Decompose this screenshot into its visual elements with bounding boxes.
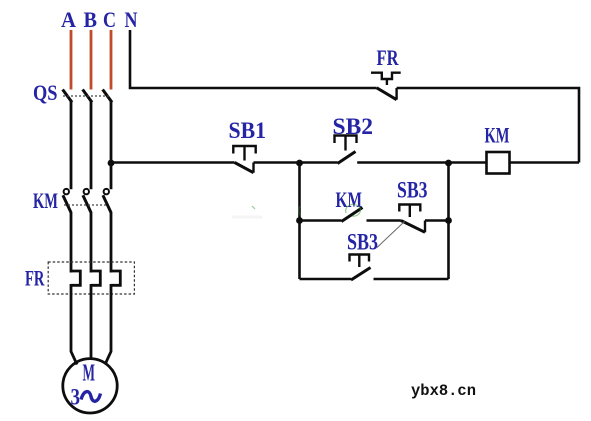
wire phase B supply (red): [90, 30, 93, 90]
relay contact FR (NC thermal contact): [371, 73, 401, 100]
wire phase A KM to FR heater: [70, 212, 73, 273]
wire neutral N down and top rail to FR contact: [130, 30, 377, 88]
wire phase B KM to FR heater: [90, 212, 93, 273]
node A label: [61, 7, 76, 32]
motor M 3-phase circle: [63, 359, 117, 413]
thermal relay FR dashed enclosure: [48, 262, 134, 294]
pushbutton SB2 label: [333, 114, 374, 139]
wire right node to KM coil: [449, 161, 487, 164]
wire branch3 left to SB3 NO: [300, 278, 352, 281]
node C label: [103, 7, 116, 32]
svg-text:FR: FR: [25, 266, 45, 291]
wire SB3 NC to branch2 right: [425, 219, 449, 222]
switch QS linkage (dotted): [63, 95, 110, 97]
wire left node to SB2: [300, 161, 338, 164]
pushbutton SB3 NO contact (jog): [350, 255, 371, 281]
motor label tilde: [81, 392, 101, 402]
contactor KM main contact pole A: [63, 189, 71, 213]
thermal relay FR heater element phase A: [71, 271, 80, 285]
wire KM coil to right rail: [510, 161, 580, 164]
wire SB3 NO to branch3 right: [374, 278, 449, 281]
watermark green scribble: [252, 204, 360, 216]
wire phase C QS to KM: [110, 102, 113, 190]
contactor KM main linkage (dotted): [64, 204, 107, 206]
wire SB2 to right node: [357, 161, 448, 164]
wire phase B QS to KM: [90, 102, 93, 190]
pushbutton SB3 label (upper): [397, 178, 428, 203]
svg-text:SB3: SB3: [397, 178, 428, 203]
wire control rail from tap to SB1: [111, 161, 235, 164]
wire phase B FR to motor: [90, 284, 93, 359]
motor label 3: [71, 385, 81, 410]
svg-text:KM: KM: [33, 188, 58, 213]
svg-text:C: C: [103, 7, 116, 32]
svg-text:QS: QS: [33, 80, 58, 105]
svg-text:A: A: [61, 7, 76, 32]
wire phase A supply (red): [70, 30, 73, 90]
annotation leader line linking SB3 contacts: [377, 222, 405, 248]
node left branch junction: [296, 160, 303, 167]
switch QS pole B blade: [83, 90, 92, 103]
wire phase C KM to FR heater: [110, 212, 113, 273]
wire right branch vertical: [447, 163, 450, 280]
svg-text:3: 3: [71, 385, 81, 410]
pushbutton SB1 label: [229, 118, 267, 143]
wire phase A QS to KM: [70, 102, 73, 190]
svg-text:ybx8.cn: ybx8.cn: [411, 382, 476, 400]
watermark faint gray remnant: [232, 216, 262, 219]
contactor KM auxiliary contact (NO, self holding): [341, 208, 362, 222]
svg-text:N: N: [125, 7, 138, 32]
node tap of control circuit on phase C: [108, 160, 115, 167]
switch QS label: [33, 80, 58, 105]
wire top rail right of FR to right rail corner: [397, 88, 579, 163]
wire phase A FR to motor: [71, 284, 77, 365]
wire branch2 left to KM aux: [300, 219, 342, 222]
switch QS pole C blade: [103, 90, 112, 103]
svg-text:SB1: SB1: [229, 118, 267, 143]
node right branch junction: [445, 160, 452, 167]
relay contact FR label (top): [377, 45, 400, 70]
svg-text:KM: KM: [336, 187, 363, 212]
node branch2 left junction: [296, 217, 303, 224]
coil KM label: [485, 123, 510, 148]
pushbutton SB3 label (lower): [347, 230, 378, 255]
wire phase C supply (red): [110, 30, 113, 90]
thermal relay FR heater element phase B: [91, 271, 100, 285]
pushbutton SB3 NC contact: [399, 205, 425, 233]
watermark text ybx8.cn: [411, 382, 476, 400]
contactor KM main contact pole C: [103, 189, 111, 213]
wire KM aux to SB3 NC: [367, 219, 401, 222]
pushbutton SB1 (stop, NC): [233, 146, 255, 173]
svg-text:SB3: SB3: [347, 230, 378, 255]
svg-text:M: M: [83, 361, 96, 387]
wire SB1 to left node: [254, 161, 300, 164]
wire left branch vertical: [298, 163, 301, 280]
thermal relay FR label: [25, 266, 45, 291]
contactor KM main contacts label: [33, 188, 58, 213]
contactor KM auxiliary contact label: [336, 187, 363, 212]
node N label: [125, 7, 138, 32]
node B label: [84, 7, 98, 32]
svg-text:B: B: [84, 7, 98, 32]
wire phase C FR to motor: [105, 284, 111, 365]
thermal relay FR heater element phase C: [111, 271, 120, 285]
coil KM (contactor coil box): [487, 152, 510, 174]
svg-text:FR: FR: [377, 45, 400, 70]
contactor KM main contact pole B: [83, 189, 91, 213]
motor label M: [83, 361, 96, 387]
svg-text:KM: KM: [485, 123, 510, 148]
pushbutton SB2 (start, NO): [335, 136, 357, 164]
node branch2 right junction: [445, 217, 452, 224]
switch QS pole A blade: [63, 90, 72, 103]
